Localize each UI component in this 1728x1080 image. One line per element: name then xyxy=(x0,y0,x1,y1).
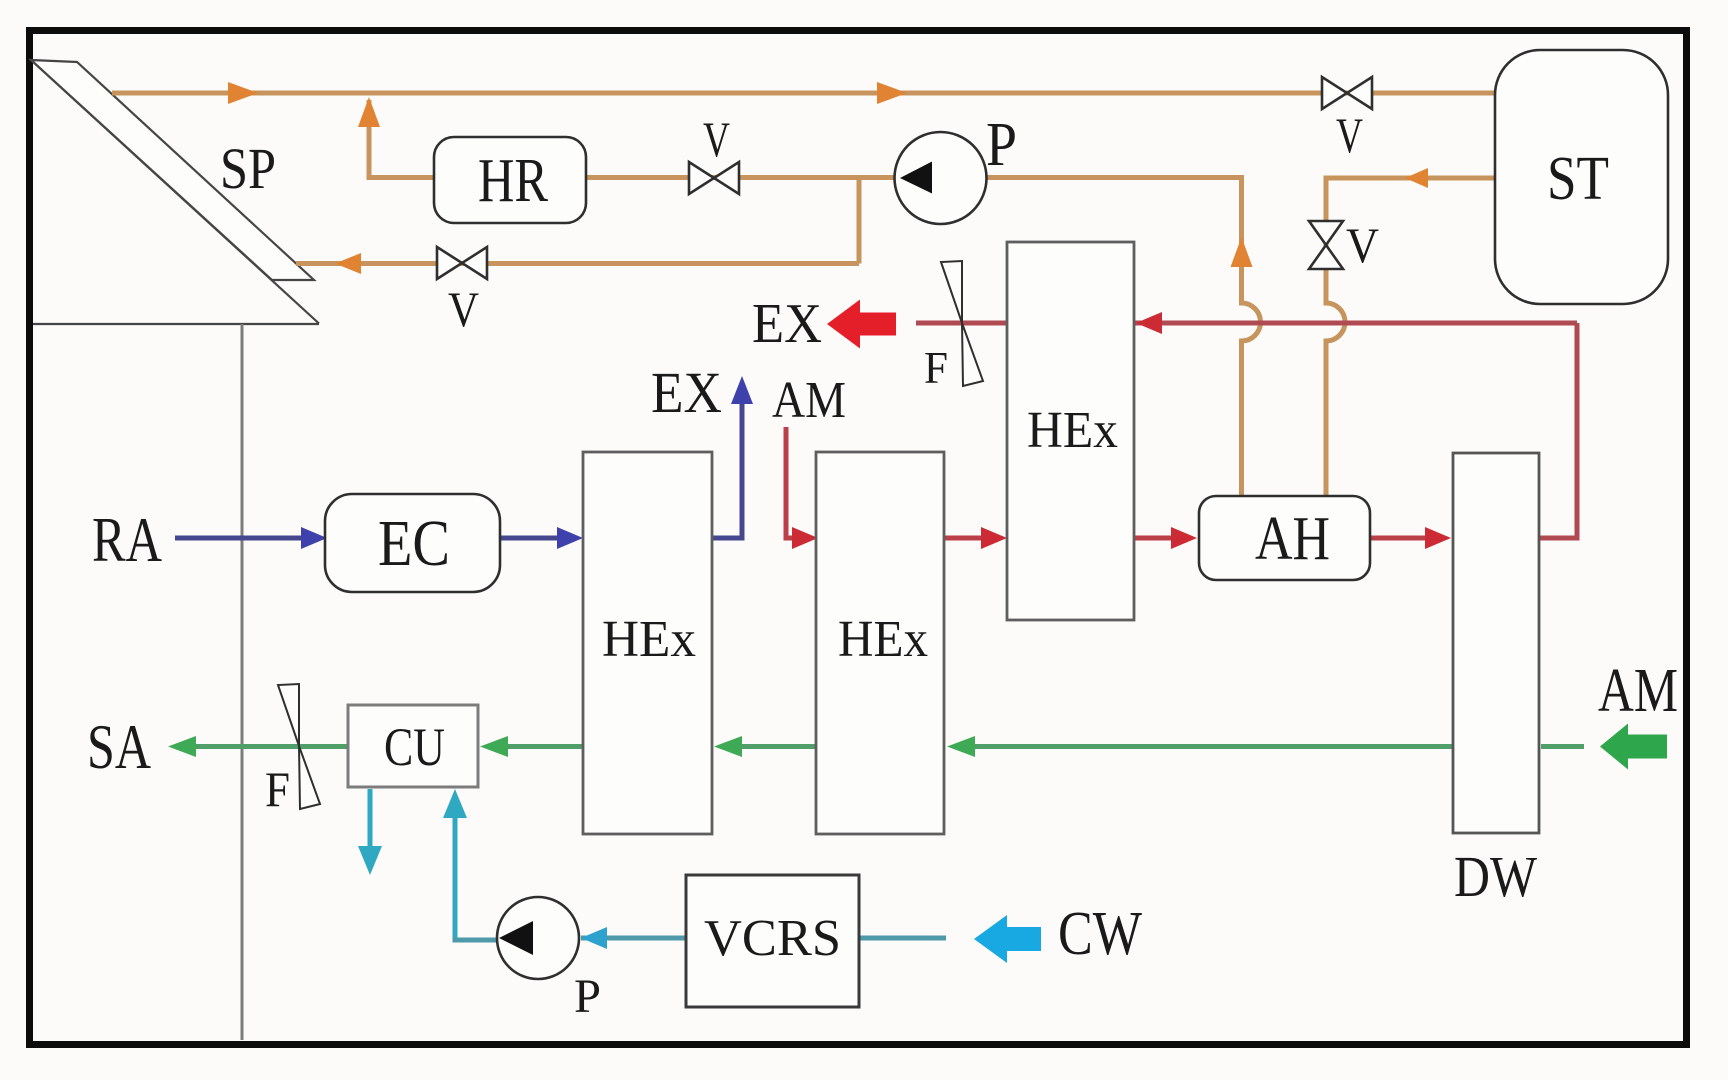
arrow green into HEx1 xyxy=(714,736,742,757)
svg-text:P: P xyxy=(574,970,601,1023)
svg-text:P: P xyxy=(986,111,1017,179)
vapor compression system VCRS xyxy=(686,875,859,1007)
svg-text:HEx: HEx xyxy=(838,611,928,668)
arrow orange up into pump line xyxy=(1231,237,1253,267)
wire green DW to HEx2 xyxy=(954,744,1453,749)
arrow green into CU xyxy=(480,736,508,757)
svg-text:V: V xyxy=(1346,217,1379,273)
wire red AM inlet vertical xyxy=(786,427,812,538)
svg-text:V: V xyxy=(703,111,730,167)
evaporative cooler EC xyxy=(325,494,500,592)
valve V3 on top line xyxy=(1322,77,1372,109)
svg-text:RA: RA xyxy=(92,504,162,575)
wire cyan CU drain down xyxy=(368,789,373,858)
arrow blue into EC xyxy=(301,527,327,549)
valve V4 on ST branch xyxy=(1309,221,1343,269)
wire blue exhaust riser xyxy=(712,382,742,538)
fan F2 supply xyxy=(278,684,320,809)
cooling unit CU xyxy=(348,705,478,787)
svg-text:SP: SP xyxy=(220,136,276,201)
pump P2 chilled water xyxy=(497,897,579,979)
heat exchanger HEx2 xyxy=(816,452,944,834)
air heater AH xyxy=(1199,496,1370,580)
wire red exhaust line upper xyxy=(916,321,1577,326)
svg-text:DW: DW xyxy=(1454,844,1537,909)
wall vertical line xyxy=(241,324,244,1040)
svg-text:HEx: HEx xyxy=(1027,402,1118,459)
wire orange return riser xyxy=(857,175,862,264)
arrow cyan drain down xyxy=(358,846,382,875)
wire green HEx2 to HEx1 xyxy=(721,744,816,749)
wire red AH to DW xyxy=(1370,536,1444,541)
svg-text:EX: EX xyxy=(752,293,822,355)
wire red HEx3 to AH xyxy=(1134,536,1190,541)
svg-text:SA: SA xyxy=(87,711,151,782)
desiccant wheel DW xyxy=(1453,453,1539,833)
wire cyan VCRS to CW xyxy=(859,936,946,941)
wire orange HR line xyxy=(367,175,1240,180)
wire red DW right link xyxy=(1539,536,1580,541)
arrow red EX block xyxy=(827,300,896,349)
svg-text:AM: AM xyxy=(1598,657,1678,725)
svg-text:AM: AM xyxy=(772,372,846,429)
wire red HEx2 to HEx3 xyxy=(944,536,1000,541)
solar panel SP xyxy=(31,60,319,324)
wire cyan chilled water riser into CU xyxy=(453,800,458,940)
wire red exhaust through fan xyxy=(916,321,1007,326)
arrow green AM block xyxy=(1600,724,1667,770)
arrow orange branch up xyxy=(358,97,380,127)
arrow blue exhaust up xyxy=(731,376,753,404)
svg-text:HEx: HEx xyxy=(602,611,696,668)
arrow orange ST outlet left xyxy=(1405,168,1428,188)
svg-text:VCRS: VCRS xyxy=(704,910,841,967)
arrow green SA end xyxy=(168,736,196,757)
svg-text:V: V xyxy=(1336,107,1363,163)
valve V1 on HR line xyxy=(689,162,739,194)
svg-text:V: V xyxy=(448,281,479,337)
heat exchanger HEx1 xyxy=(583,452,712,834)
wire orange ST branch down to AH with hop over red xyxy=(1326,176,1345,499)
svg-text:F: F xyxy=(924,342,948,393)
arrow orange top 2 xyxy=(877,82,907,104)
arrow blue into HEx1 xyxy=(557,527,583,549)
arrow orange top 1 xyxy=(228,82,258,104)
valve V2 on return line xyxy=(437,247,487,279)
wire green AM stub xyxy=(1541,744,1584,749)
wire green SA line xyxy=(196,744,348,749)
wire cyan pump link xyxy=(453,938,501,943)
arrow red into HEx3 xyxy=(981,527,1007,549)
wire orange return line to SP xyxy=(296,261,859,266)
svg-text:CU: CU xyxy=(384,717,445,777)
wire green HEx1 to CU xyxy=(487,744,583,749)
wire orange pump elbow down to AH with hop over red xyxy=(1242,175,1261,498)
svg-text:ST: ST xyxy=(1547,145,1609,213)
storage tank ST xyxy=(1495,50,1668,304)
wire orange top supply SP to ST xyxy=(112,91,1496,96)
arrow green into HEx2 xyxy=(947,736,975,757)
arrow red into DW xyxy=(1425,527,1451,549)
heat recovery unit HR xyxy=(434,137,586,223)
svg-text:F: F xyxy=(265,761,290,817)
svg-text:HR: HR xyxy=(478,147,549,215)
arrow cyan into pump xyxy=(581,927,607,949)
wire orange HR branch vertical xyxy=(367,100,372,180)
svg-text:AH: AH xyxy=(1255,505,1330,573)
wire red vertical from DW loop xyxy=(1575,323,1580,540)
wire blue EC to HEx1 xyxy=(500,536,576,541)
svg-text:EC: EC xyxy=(378,507,450,580)
wire blue RA inlet xyxy=(175,536,320,541)
arrow cyan up into CU xyxy=(443,789,467,818)
fan F1 exhaust xyxy=(941,261,983,386)
wire cyan pump to VCRS xyxy=(581,936,686,941)
arrow cyan CW block xyxy=(974,915,1041,963)
arrow red into HEx2 xyxy=(792,527,818,549)
wire orange ST outlet line xyxy=(1326,176,1496,181)
arrow orange return left xyxy=(335,253,361,274)
svg-text:CW: CW xyxy=(1058,900,1142,968)
svg-text:EX: EX xyxy=(651,360,722,425)
arrow red into AH xyxy=(1171,527,1197,549)
pump P1 solar loop xyxy=(895,132,987,224)
arrow red exhaust into HEx3 xyxy=(1136,312,1162,334)
heat exchanger HEx3 xyxy=(1007,242,1134,620)
